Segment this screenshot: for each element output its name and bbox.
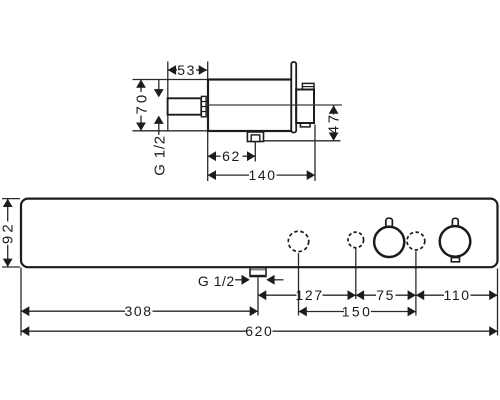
svg-text:110: 110 xyxy=(444,287,471,303)
svg-text:62: 62 xyxy=(222,148,241,164)
svg-text:620: 620 xyxy=(245,323,273,339)
svg-text:53: 53 xyxy=(177,62,196,78)
svg-text:75: 75 xyxy=(376,287,395,303)
svg-text:150: 150 xyxy=(342,303,373,319)
svg-text:92: 92 xyxy=(0,221,17,244)
svg-text:140: 140 xyxy=(249,167,277,183)
svg-text:70: 70 xyxy=(134,92,151,115)
svg-text:308: 308 xyxy=(125,303,153,319)
svg-text:47: 47 xyxy=(325,112,342,134)
svg-text:G 1/2: G 1/2 xyxy=(152,135,169,176)
svg-text:127: 127 xyxy=(296,287,324,303)
svg-text:G 1/2: G 1/2 xyxy=(198,273,235,289)
